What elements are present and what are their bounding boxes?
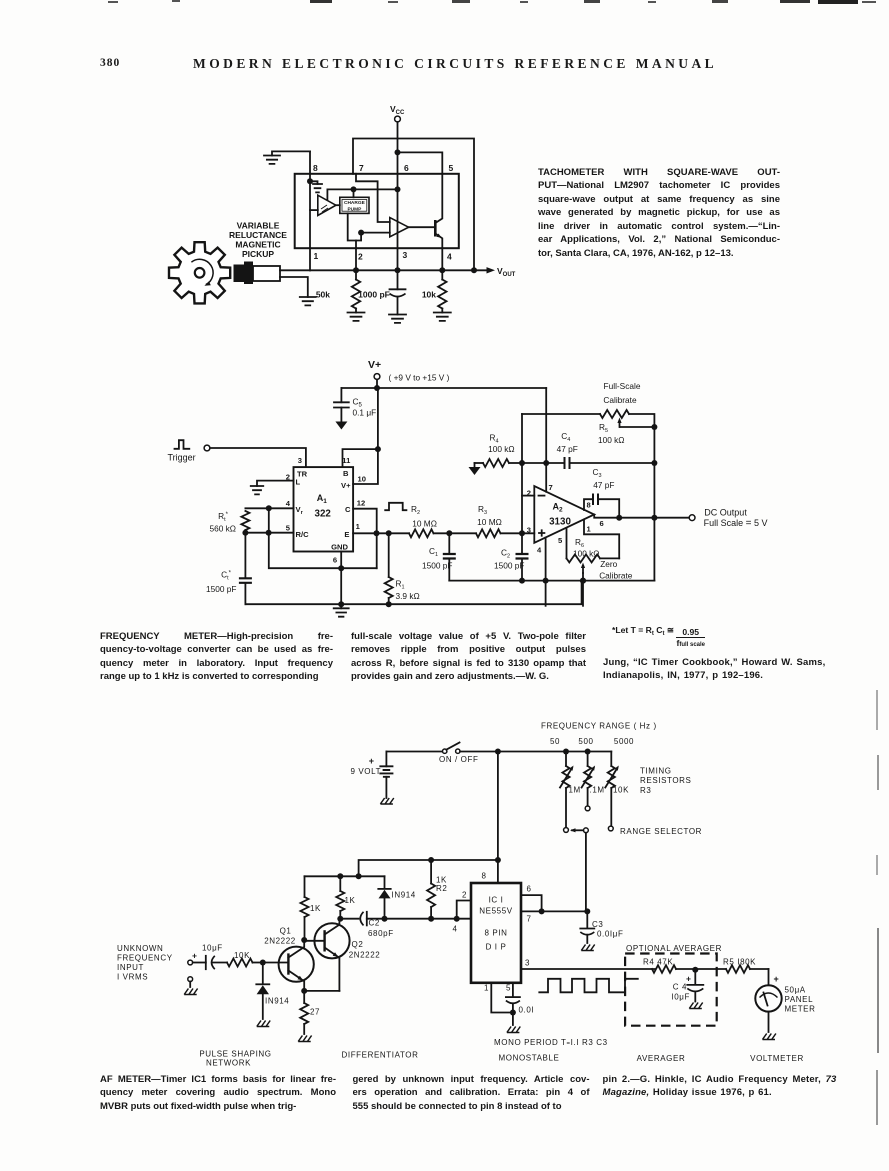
svg-text:1K: 1K [310,904,321,913]
capacitor C3 0.01uF [580,911,623,943]
wire base line to 555 [385,916,472,922]
svg-text:TIMING: TIMING [640,767,672,776]
label mono period [494,1038,608,1047]
svg-text:UNKNOWN: UNKNOWN [117,944,163,953]
svg-text:VARIABLE: VARIABLE [237,221,280,231]
variable resistor .1M timing [582,752,605,811]
ground C4 [689,1003,702,1009]
ground input diode [257,1021,270,1027]
resistor R2 10M [409,504,476,537]
battery 9 volt [351,752,394,799]
svg-text:.1M: .1M [590,786,605,795]
svg-text:+: + [369,756,374,766]
svg-text:A1: A1 [317,493,328,505]
svg-text:3: 3 [525,959,530,968]
svg-text:5: 5 [506,984,511,993]
svg-text:DIFFERENTIATOR: DIFFERENTIATOR [342,1051,419,1060]
resistor R3 10M [476,504,534,537]
wire pin2 to node [355,248,357,270]
svg-text:47 pF: 47 pF [557,444,578,454]
ground pin5 [507,1013,520,1033]
svg-text:Vr: Vr [296,505,304,516]
svg-text:Calibrate: Calibrate [603,395,637,405]
wire U1b input [356,230,390,241]
wire pin2 jog 555 [453,891,472,934]
svg-text:FREQUENCY RANGE ( Hz ): FREQUENCY RANGE ( Hz ) [541,722,657,731]
capacitor C5 0.1uF [334,388,376,422]
ground input [184,982,197,995]
resistor R5 180K [695,958,768,973]
transistor Q2 2N2222 [304,919,380,991]
diode IN914 input clamp [256,963,289,1020]
svg-text:1: 1 [587,525,592,534]
node E output line [353,530,409,536]
ground battery [380,798,393,804]
svg-text:680pF: 680pF [368,929,394,938]
wire selector pole down [584,833,590,915]
svg-text:R6: R6 [575,537,584,549]
svg-text:6: 6 [527,885,532,894]
svg-text:MONOSTABLE: MONOSTABLE [499,1054,560,1063]
svg-text:560 kΩ: 560 kΩ [210,524,237,534]
svg-text:7: 7 [527,915,532,924]
ground pickup [300,297,316,305]
svg-text:8: 8 [313,163,318,173]
svg-text:10 MΩ: 10 MΩ [477,517,502,527]
wire pickup to pin1 [280,269,310,271]
wire pickup return to ground [280,277,308,297]
node output bus VOUT [310,266,516,278]
svg-text:2N2222: 2N2222 [264,937,296,946]
resistor Rt* 560k [210,511,250,534]
trigger input [168,440,306,467]
wire emitters junction [301,988,339,994]
op-amp U1b [390,218,409,237]
svg-text:47 pF: 47 pF [593,480,614,490]
svg-text:5: 5 [449,163,454,173]
svg-text:V+: V+ [368,359,381,371]
svg-text:3: 3 [298,456,302,465]
svg-text:FREQUENCY: FREQUENCY [117,954,173,963]
resistor R1 3.9k [385,533,420,607]
ground R4 [469,463,481,475]
svg-text:MAGNETIC: MAGNETIC [235,240,280,250]
ground upper-left [264,151,310,164]
variable resistor 1M timing [560,752,581,833]
power net V+ [368,359,450,391]
svg-text:12: 12 [357,499,365,508]
label variable reluctance magnetic pickup [229,221,287,260]
svg-text:3: 3 [403,250,408,260]
svg-text:Q2: Q2 [352,940,364,949]
resistor R2 1K [427,857,447,922]
section labels circuit3 [199,1050,803,1068]
svg-text:3.9 kΩ: 3.9 kΩ [396,591,420,601]
svg-text:9 VOLT: 9 VOLT [351,767,382,776]
wire pin6 GND [338,552,344,608]
wire pin8 pin1 input [307,151,313,270]
svg-text:NETWORK: NETWORK [206,1059,251,1068]
svg-text:0.1 μF: 0.1 μF [353,408,377,418]
wire pin7 to U1b [356,174,390,222]
svg-text:50: 50 [550,737,560,746]
svg-text:C: C [345,505,351,514]
variable resistor 10K timing [605,752,629,831]
svg-text:( +9 V to +15 V ): ( +9 V to +15 V ) [389,373,450,383]
wire pin10 V+ [353,388,378,484]
svg-text:PUMP: PUMP [347,206,362,212]
svg-text:500: 500 [578,737,593,746]
svg-text:4: 4 [537,546,542,555]
wire pin3 output [521,968,655,970]
svg-text:RELUCTANCE: RELUCTANCE [229,230,287,240]
svg-text:2: 2 [462,891,467,900]
IC U1 LM2907 outline [295,163,459,262]
svg-text:0.0IμF: 0.0IμF [597,930,623,939]
IC1 NE555V outline [471,872,532,993]
svg-text:+: + [774,974,779,984]
resistor R4 47K [643,958,698,973]
ground emitter resistor [298,1036,311,1042]
capacitor C4 10uF [671,970,703,1002]
wire pin4 to node [441,248,443,270]
ground C3 [581,945,594,951]
svg-text:10μF: 10μF [202,944,223,953]
resistor 10k [422,270,447,312]
svg-text:R3: R3 [640,786,651,795]
magnet of pickup [234,262,254,285]
svg-text:Zero: Zero [600,559,617,569]
ground under 10k [434,313,451,321]
switch on/off [386,743,478,765]
svg-text:OPTIONAL AVERAGER: OPTIONAL AVERAGER [626,944,722,953]
svg-text:5: 5 [558,536,563,545]
svg-text:R/C: R/C [296,530,310,539]
svg-text:R1: R1 [396,579,405,591]
svg-text:1500 pF: 1500 pF [494,561,524,571]
svg-text:R5 I80K: R5 I80K [723,958,756,967]
svg-text:C3: C3 [592,467,601,479]
svg-text:VOLTMETER: VOLTMETER [750,1054,804,1063]
svg-text:10k: 10k [422,290,436,300]
svg-text:10 MΩ: 10 MΩ [412,519,437,529]
svg-text:6: 6 [404,163,409,173]
svg-text:6: 6 [333,556,337,565]
diode IN914 differentiator [378,876,416,921]
ground under 1000pF [389,315,406,323]
node DC output [594,508,767,530]
svg-text:R2: R2 [436,884,447,893]
resistor R4 100k [475,433,523,468]
ground pin2 L [251,481,294,495]
svg-text:VOUT: VOUT [497,266,516,278]
svg-text:Full Scale = 5 V: Full Scale = 5 V [704,518,768,529]
ground under C5 [335,422,347,430]
node Q1 base junction [260,960,289,966]
svg-text:B: B [343,469,349,478]
capacitor C2 1500pF [494,533,528,580]
svg-text:IC I: IC I [489,896,504,905]
svg-text:322: 322 [315,509,332,520]
label timing resistors R3 [640,767,692,796]
svg-text:L: L [296,478,301,487]
svg-text:8 PIN: 8 PIN [484,929,507,938]
svg-text:NE555V: NE555V [479,907,512,916]
svg-text:PICKUP: PICKUP [242,249,274,259]
svg-text:METER: METER [785,1005,816,1014]
svg-text:10: 10 [358,475,366,484]
svg-text:50μA: 50μA [785,986,806,995]
svg-text:7: 7 [549,483,553,492]
svg-text:PANEL: PANEL [785,995,814,1004]
power net VCC [390,104,405,270]
input terminal unknown frequency [117,944,193,982]
svg-text:R5: R5 [599,422,608,434]
wire pin2 inverting input [522,495,534,497]
svg-text:INPUT: INPUT [117,963,144,972]
svg-text:R2: R2 [411,504,420,516]
wire pin5 RC stub [242,530,293,536]
wire pin11 B to V+ [343,446,381,467]
svg-text:Trigger: Trigger [168,453,196,463]
ground under 50k [348,313,365,321]
capacitor C3 47pF feedback [584,467,622,521]
wire supply top rail [460,749,611,755]
svg-text:5: 5 [286,524,291,533]
wire rail pin5 [398,152,443,173]
capacitor 1000 pF [358,270,405,314]
svg-text:1000 pF: 1000 pF [358,290,390,300]
square wave glyph [539,979,638,993]
svg-text:R4 47K: R4 47K [643,958,673,967]
wire pin6 stub [521,895,545,914]
svg-text:2N2222: 2N2222 [349,951,381,960]
svg-text:4: 4 [447,252,452,262]
ground meter [763,1012,776,1040]
potentiometer R6 100k zero calibrate [567,528,633,606]
capacitor C4 47pF [522,431,657,469]
svg-text:Q1: Q1 [280,927,292,936]
svg-text:C1: C1 [429,546,438,558]
wire supply to pin8 [495,752,501,882]
resistor 1K Q2 base [336,876,355,921]
wire V+ rail [341,387,546,389]
svg-text:2: 2 [527,489,531,498]
potentiometer R5 100k full-scale calibrate [522,381,657,445]
resistor 50k [316,270,360,312]
svg-text:1: 1 [314,251,319,261]
capacitor 0.01 pin5 [506,983,534,1016]
wire pin1 stub [584,520,619,559]
svg-text:A2: A2 [552,502,563,514]
svg-text:RESISTORS: RESISTORS [640,776,692,785]
svg-text:0.0I: 0.0I [519,1006,535,1015]
svg-text:7: 7 [359,163,364,173]
range selector switch [570,827,702,836]
svg-text:R3: R3 [478,504,487,516]
ground pin6 [334,604,349,617]
wire collector supply rail [305,873,385,879]
svg-text:6: 6 [600,519,604,528]
svg-text:RANGE SELECTOR: RANGE SELECTOR [620,827,702,836]
wire supply branch to transistors [359,860,498,876]
transistor Q1 internal [409,174,443,248]
svg-text:VCC: VCC [390,104,405,116]
svg-text:10K: 10K [234,951,250,960]
svg-text:C4: C4 [561,431,570,443]
svg-text:1: 1 [484,984,489,993]
svg-text:100 kΩ: 100 kΩ [573,548,600,558]
svg-text:Ct*: Ct* [221,570,232,582]
charge pump block [336,197,369,213]
svg-text:+: + [192,951,197,961]
ground internal pin8 [310,181,322,192]
svg-text:50k: 50k [316,290,330,300]
svg-text:4: 4 [453,925,458,934]
wire pin4 Vr stub [245,505,293,511]
svg-text:DC Output: DC Output [704,508,747,518]
wire pump to pin2 [348,213,356,248]
svg-text:27: 27 [310,1008,320,1017]
svg-text:IN914: IN914 [265,997,289,1006]
transistor Q1 2N2222 [264,927,314,991]
resistor 1K Q1 collector [301,876,322,943]
svg-text:100 kΩ: 100 kΩ [488,444,515,454]
capacitor 10uF input [192,944,227,970]
svg-text:IN914: IN914 [392,891,416,900]
ground bus bottom rail [245,581,581,605]
wire feedback node vertical [519,414,525,533]
svg-text:4: 4 [286,499,291,508]
svg-text:3130: 3130 [549,517,571,528]
svg-text:GND: GND [331,543,348,552]
svg-text:Rt*: Rt* [218,511,229,523]
svg-text:C 4: C 4 [673,983,687,992]
svg-text:AVERAGER: AVERAGER [637,1054,686,1063]
svg-text:C2: C2 [501,548,510,560]
svg-text:8: 8 [587,501,591,510]
svg-text:3: 3 [527,526,531,535]
capacitor C2 680pF [340,912,393,938]
gear wheel of magnetic pickup [169,242,230,303]
svg-text:ON / OFF: ON / OFF [439,755,478,764]
wire pin7 line [521,910,587,912]
op-amp A2 3130 [527,483,604,555]
ground bus under filter [449,578,654,584]
wire pin1 to pin5 node [491,983,513,1013]
svg-text:D I P: D I P [486,943,507,952]
svg-text:C2: C2 [369,919,380,928]
capacitor Ct* 1500pF [206,533,252,605]
panel meter 50uA [755,969,815,1014]
svg-text:1500 pF: 1500 pF [206,584,236,594]
svg-text:11: 11 [342,456,351,465]
wire internal bias [327,186,397,200]
resistor 10K input [227,951,263,967]
svg-text:I VRMS: I VRMS [117,973,148,982]
op-amp U1a comparator [310,195,336,215]
capacitor C1 1500pF [422,533,456,580]
svg-text:V+: V+ [341,481,351,490]
svg-text:Calibrate: Calibrate [599,570,633,580]
svg-text:8: 8 [481,872,486,881]
svg-text:E: E [344,530,349,539]
dashed box optional averager [625,944,722,1026]
svg-text:10K: 10K [613,786,629,795]
wire pin12 C stub [353,509,377,569]
svg-text:Full-Scale: Full-Scale [604,381,641,391]
label frequency range [541,722,657,747]
IC A1 322 timer outline [286,456,366,565]
svg-text:I0μF: I0μF [671,993,690,1002]
wire pin4 to ground bus [545,538,547,606]
wire pin4 to gnd bus [269,508,377,571]
svg-text:1: 1 [356,522,361,531]
resistor 27 emitter [300,991,320,1034]
svg-text:2: 2 [358,252,363,262]
pickup coil body [253,266,280,281]
svg-text:1500 pF: 1500 pF [422,561,452,571]
svg-text:MONO PERIOD T=I.I R3 C3: MONO PERIOD T=I.I R3 C3 [494,1038,608,1047]
svg-text:1M: 1M [569,786,581,795]
svg-text:C3: C3 [592,920,603,929]
svg-text:CHARGE: CHARGE [344,200,366,206]
wire V+ down to pin7 [545,388,547,492]
wire top rail pin7 [353,139,477,274]
svg-text:5000: 5000 [614,737,634,746]
svg-text:100 kΩ: 100 kΩ [598,435,625,445]
svg-text:PULSE SHAPING: PULSE SHAPING [199,1050,271,1059]
svg-text:1K: 1K [345,896,356,905]
svg-text:R4: R4 [489,433,498,445]
pulse glyph near R2 [385,503,406,510]
wire output right vertical [651,427,657,581]
